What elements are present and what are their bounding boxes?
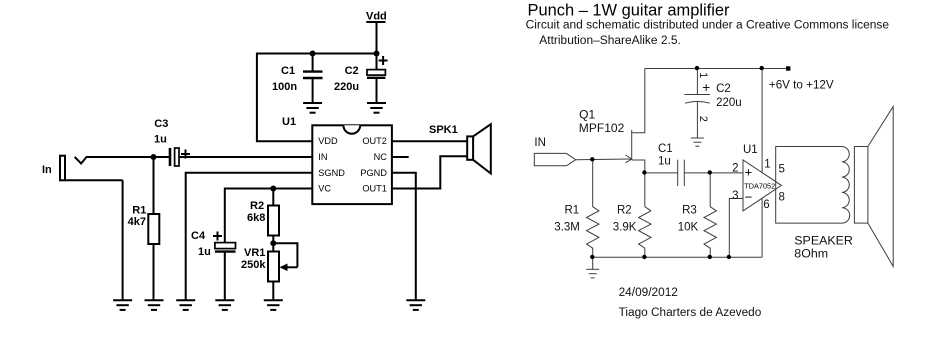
svg-text:U1: U1 — [282, 116, 296, 128]
wire jack tip to node A — [86, 156, 154, 158]
ground (bottom rail) — [586, 257, 599, 278]
IC U1 notch — [343, 125, 360, 133]
resistor R1 lead bottom — [153, 244, 155, 300]
node rail/pin3 — [727, 255, 731, 259]
wire jack sleeve down to ground — [122, 180, 124, 300]
svg-text:Vdd: Vdd — [366, 11, 387, 23]
capacitor C1 lead bottom — [312, 79, 314, 103]
svg-text:IN: IN — [318, 152, 327, 162]
node source/R2/C1 — [642, 170, 646, 174]
wire opamp - input pin3 — [729, 199, 743, 258]
ground (C4) — [215, 300, 234, 310]
ground (VR1) — [264, 300, 283, 310]
svg-text:250k: 250k — [241, 259, 266, 271]
transistor Q1 source stub — [632, 160, 645, 207]
svg-text:2: 2 — [732, 162, 738, 174]
junction dots right schematic — [590, 66, 764, 259]
speaker coil box — [776, 147, 842, 224]
svg-text:NC: NC — [374, 152, 388, 162]
svg-text:VDD: VDD — [318, 136, 338, 146]
node rail/R1 bottom — [590, 255, 594, 259]
svg-text:TDA7052: TDA7052 — [744, 181, 775, 190]
svg-text:VC: VC — [318, 184, 331, 194]
resistor R1 zigzag — [587, 160, 599, 258]
speaker SPK1 driver — [467, 136, 473, 159]
transistor Q1 drain stub — [632, 69, 645, 133]
node rail/pin1 — [760, 66, 764, 70]
svg-text:C1: C1 — [658, 143, 673, 155]
jack J connector body — [60, 156, 65, 181]
svg-text:+: + — [745, 165, 753, 180]
svg-text:R2: R2 — [250, 200, 264, 212]
svg-text:1u: 1u — [198, 246, 211, 258]
capacitor C2 lead bottom — [376, 79, 378, 103]
svg-text:4k7: 4k7 — [128, 216, 146, 228]
capacitor C2 lead top — [696, 69, 698, 95]
speaker SPK1 cone — [473, 124, 491, 173]
op-amp U1 triangle — [743, 160, 781, 211]
wire C3 to U1 IN pin — [179, 156, 312, 158]
svg-text:Circuit and schematic distribu: Circuit and schematic distributed under … — [526, 20, 890, 32]
svg-text:220u: 220u — [716, 97, 742, 109]
svg-text:100n: 100n — [272, 81, 297, 93]
svg-text:Tiago Charters de Azevedo: Tiago Charters de Azevedo — [619, 307, 762, 319]
transistor Q1 channel — [631, 130, 633, 160]
svg-text:−: − — [745, 190, 753, 205]
resistor R2 lead bottom — [272, 236, 274, 252]
speaker driver box — [854, 147, 868, 224]
svg-text:Attribution–ShareAlike 2.5.: Attribution–ShareAlike 2.5. — [539, 35, 681, 47]
svg-text:3.3M: 3.3M — [554, 222, 580, 234]
svg-text:IN: IN — [534, 137, 546, 149]
input tag IN — [534, 153, 575, 165]
resistor R3 lead top — [709, 173, 711, 207]
svg-text:R3: R3 — [682, 205, 697, 217]
svg-text:VR1: VR1 — [244, 247, 265, 259]
potentiometer VR1 body — [268, 252, 279, 282]
svg-text:In: In — [42, 164, 52, 176]
node jack/R1/C3 — [151, 154, 157, 160]
node R2/VR1 wiper — [270, 240, 276, 246]
capacitor C2 lead bottom — [696, 102, 698, 138]
ground (C2 right) — [691, 138, 704, 146]
capacitor C2 plates — [367, 70, 385, 78]
svg-text:6k8: 6k8 — [247, 212, 265, 224]
ground (jack sleeve) — [113, 300, 132, 310]
ground (R1) — [145, 300, 164, 310]
svg-text:1: 1 — [697, 72, 709, 78]
wire U1 SGND pin to ground — [186, 173, 313, 300]
wire U1 PGND to ground — [392, 173, 416, 300]
node rail/C2/Vdd — [374, 51, 380, 57]
text right schematic — [526, 1, 890, 319]
resistor R1 body — [148, 214, 159, 244]
capacitor C3 plates — [170, 148, 179, 166]
svg-text:Q1: Q1 — [579, 110, 595, 122]
supply rail top — [645, 68, 788, 70]
wire source node to C1 — [645, 172, 678, 174]
jack tip switch contact — [75, 157, 87, 164]
IC U1 body — [312, 125, 392, 204]
resistor R2 body — [268, 206, 279, 236]
svg-text:8Ohm: 8Ohm — [794, 246, 828, 260]
svg-text:R2: R2 — [617, 205, 632, 217]
svg-text:C4: C4 — [191, 230, 206, 242]
svg-text:C1: C1 — [281, 65, 295, 77]
svg-text:PGND: PGND — [360, 168, 387, 178]
svg-text:10K: 10K — [678, 222, 699, 234]
Vdd supply bar — [366, 21, 385, 23]
svg-text:2: 2 — [697, 116, 709, 122]
svg-text:C2: C2 — [716, 83, 731, 95]
supply terminal square — [786, 66, 790, 70]
capacitor C1 plates — [678, 160, 685, 186]
plus sign C2 — [379, 56, 388, 65]
wire pin1 to rail — [761, 69, 763, 173]
capacitor C2 lead top — [376, 54, 378, 70]
resistor R2 zigzag — [639, 211, 651, 258]
resistor R1 lead top — [153, 157, 155, 214]
svg-text:C2: C2 — [345, 65, 359, 77]
ground (C1) — [303, 103, 322, 113]
svg-text:SPK1: SPK1 — [429, 124, 458, 136]
svg-text:C3: C3 — [154, 118, 168, 130]
wire Vdd bar down to rail — [376, 22, 378, 54]
svg-text:24/09/2012: 24/09/2012 — [619, 287, 678, 299]
ground (PGND) — [406, 300, 425, 310]
svg-text:+: + — [702, 80, 710, 95]
svg-text:Punch – 1W guitar amplifier: Punch – 1W guitar amplifier — [528, 1, 730, 20]
svg-text:U1: U1 — [743, 144, 758, 156]
svg-text:OUT1: OUT1 — [362, 184, 387, 194]
bottom rail — [593, 256, 762, 258]
wire U1 OUT2 to SPK1 — [392, 140, 467, 142]
node C1/R3/pin2 — [708, 170, 712, 174]
wire U1 OUT1 to SPK1 return — [392, 156, 467, 188]
svg-text:3: 3 — [732, 190, 738, 202]
svg-text:6: 6 — [763, 199, 769, 211]
transistor Q1 gate arrow — [626, 155, 632, 163]
svg-text:OUT2: OUT2 — [362, 136, 387, 146]
labels left schematic — [42, 11, 458, 272]
svg-text:8: 8 — [779, 191, 785, 203]
capacitor C4 lead bottom — [224, 253, 226, 301]
svg-text:3.9K: 3.9K — [613, 222, 637, 234]
node rail/C2 — [695, 66, 699, 70]
plus sign C4 — [213, 232, 222, 241]
potentiometer VR1 lead bottom — [272, 282, 274, 301]
node IN/R1 — [590, 157, 594, 161]
node VC/R2 — [270, 186, 276, 192]
speaker cone — [868, 107, 893, 267]
plus sign C3 — [181, 150, 190, 159]
ground (C2) — [367, 103, 386, 113]
wire U1 VDD pin to Vdd rail — [257, 54, 377, 142]
wire C1 to opamp + input — [684, 172, 743, 174]
svg-text:220u: 220u — [334, 81, 359, 93]
wire node A to C3 — [154, 156, 170, 158]
capacitor C2 plates — [684, 95, 710, 104]
svg-text:+6V to +12V: +6V to +12V — [769, 77, 834, 91]
svg-text:R1: R1 — [132, 204, 146, 216]
wire IN to gate — [576, 158, 631, 161]
svg-text:1u: 1u — [154, 134, 167, 146]
svg-text:1u: 1u — [658, 156, 671, 168]
svg-text:SGND: SGND — [318, 168, 345, 178]
svg-text:1: 1 — [764, 159, 770, 171]
svg-text:MPF102: MPF102 — [579, 123, 625, 135]
potentiometer VR1 wiper arrow — [273, 243, 297, 271]
capacitor C4 plates — [215, 243, 236, 252]
ground (SGND) — [176, 300, 195, 310]
wire U1 VC pin to C4 — [225, 189, 312, 243]
svg-text:5: 5 — [779, 164, 785, 176]
resistor R3 zigzag — [704, 207, 716, 258]
capacitor C1 plates — [303, 72, 323, 78]
wire pin6 down to rail — [761, 198, 763, 257]
resistor R2 lead top — [272, 189, 274, 206]
wire jack sleeve horizontal — [65, 179, 123, 181]
junction dots left schematic — [151, 51, 380, 247]
speaker coil bumps — [842, 147, 850, 224]
wire U1 NC stub — [392, 156, 409, 158]
svg-text:R1: R1 — [565, 205, 580, 217]
capacitor C1 lead top — [312, 54, 314, 71]
node rail/R3 bottom — [708, 255, 712, 259]
node rail/R2 bottom — [642, 255, 646, 259]
node rail/C1 — [310, 51, 316, 57]
